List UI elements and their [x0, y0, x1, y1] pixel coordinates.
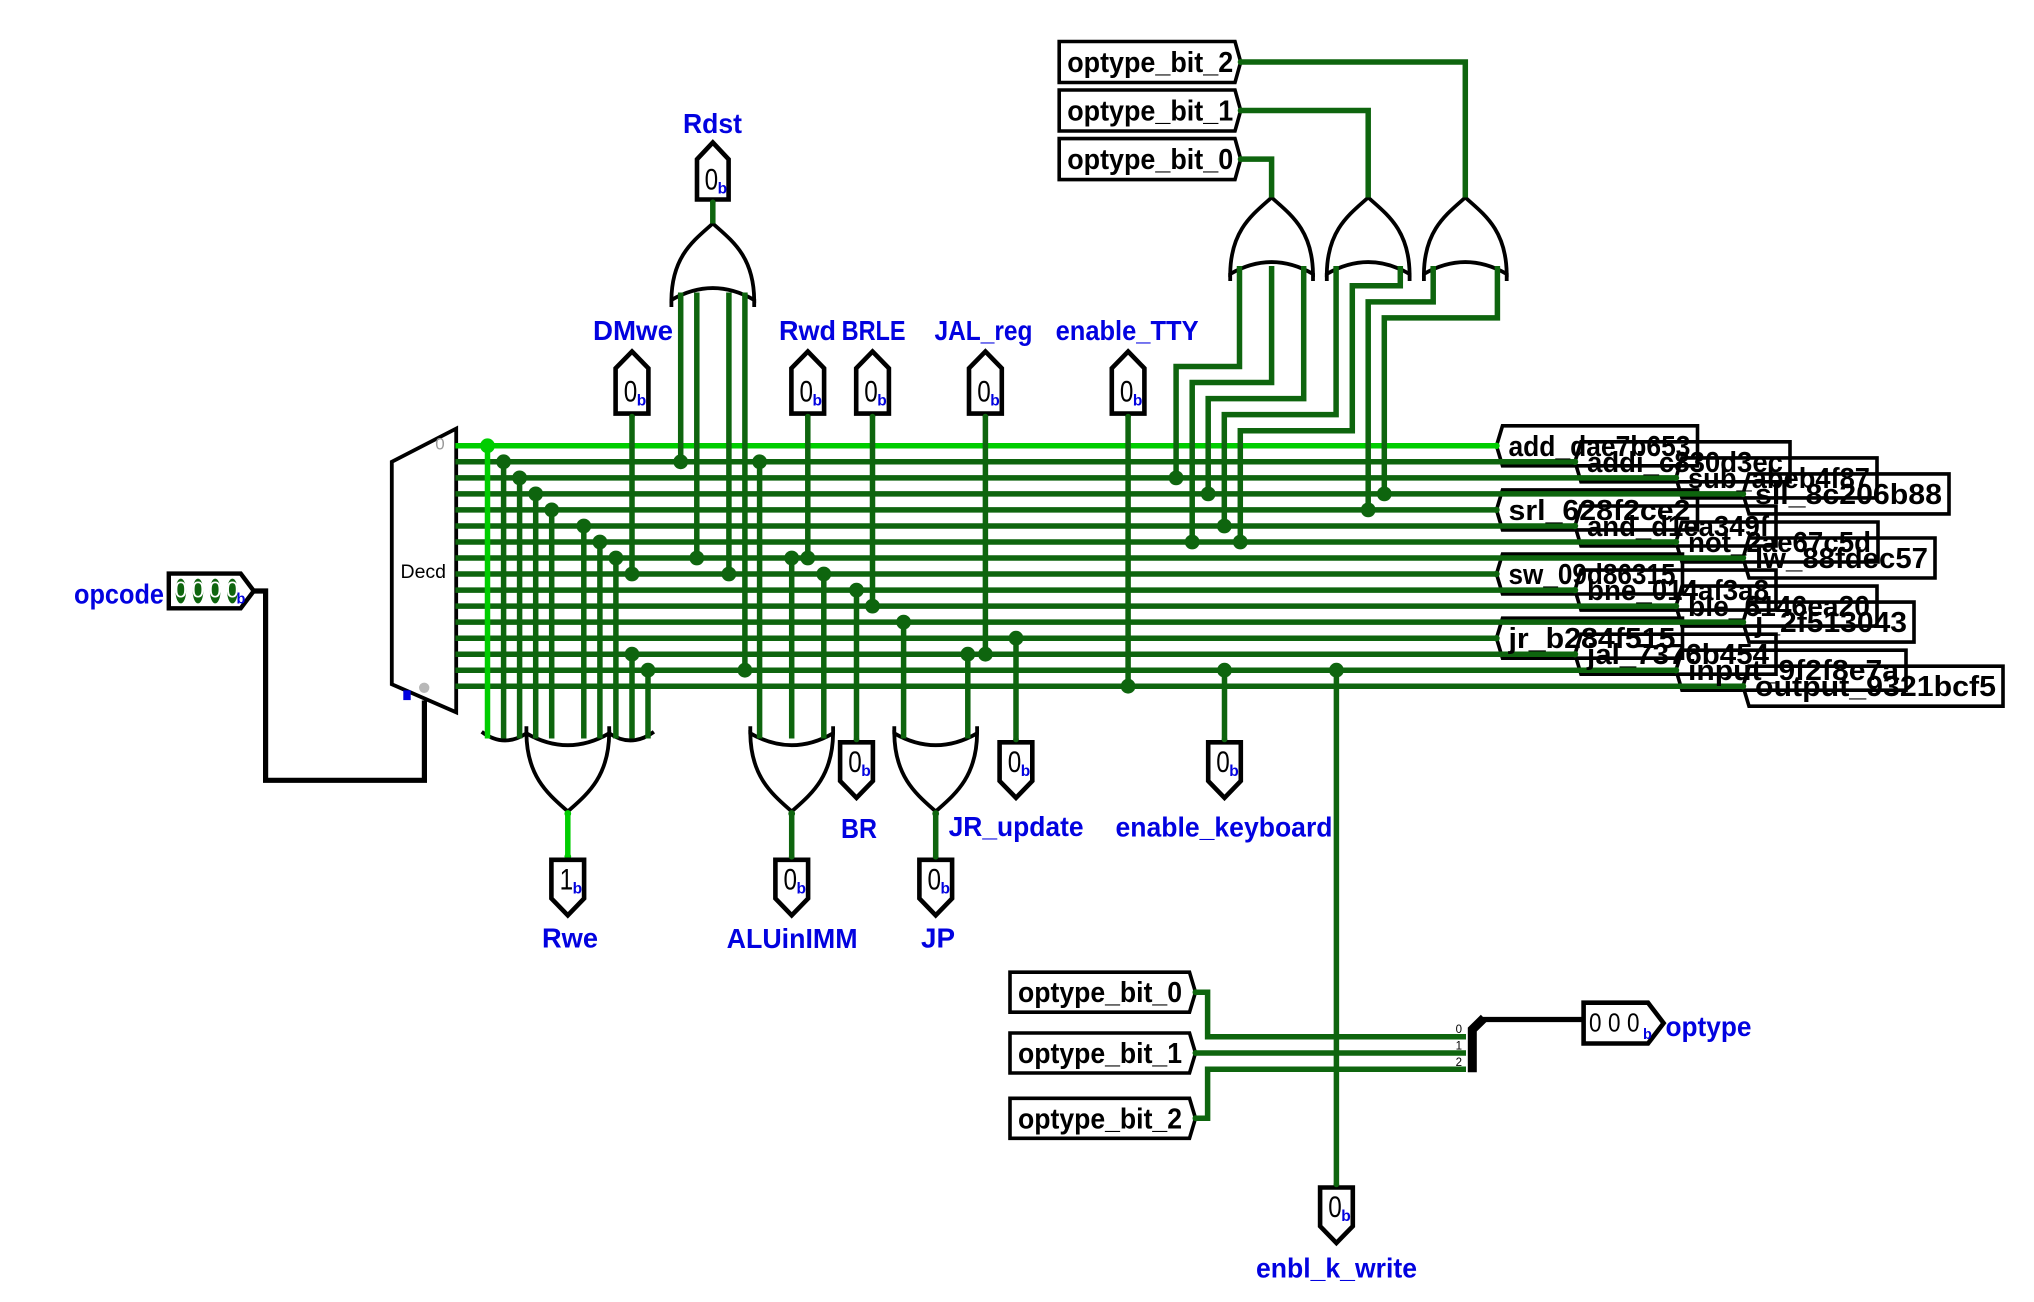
- svg-text:b: b: [877, 393, 886, 410]
- node not_2ae67c5d tip: [1673, 539, 1679, 545]
- wire row0 add (decoder to tunnel): [455, 443, 1496, 449]
- svg-text:b: b: [797, 880, 806, 897]
- svg-text:opcode: opcode: [74, 579, 164, 610]
- wire row8 tap to ALUinIMM input (x=824): [821, 574, 827, 739]
- svg-text:BRLE: BRLE: [842, 315, 906, 346]
- junction row1/Rdst: [673, 454, 688, 469]
- junction row14/enable_keyboard: [1217, 663, 1232, 678]
- wire row14 tap to Rdst input (x=745): [742, 293, 748, 671]
- svg-text:0: 0: [784, 863, 798, 896]
- tunnel sub_abeb4f87 (row 2): [1676, 458, 1877, 498]
- node pin port (bottom probe): [1013, 737, 1019, 743]
- tunnel optype_bit_2 (bottom): [1010, 1098, 1196, 1138]
- svg-text:JAL_reg: JAL_reg: [935, 315, 1033, 346]
- or-gate U-bit1 (optype_bit_1): [1327, 198, 1410, 275]
- wire row6 tap to Rwe input (x=600): [597, 542, 603, 739]
- output pin Rdst (0b): [697, 143, 729, 200]
- tunnel optype_bit_0 (bottom): [1010, 972, 1196, 1012]
- wire row9 bne (decoder to tunnel): [455, 587, 1575, 593]
- svg-text:output_9321bcf5: output_9321bcf5: [1755, 671, 1996, 703]
- node sw_09d86315 tip: [1493, 571, 1499, 577]
- junction row13/JAL_reg: [978, 647, 993, 662]
- junction row5/bit1A: [1217, 519, 1232, 534]
- wire DMwe pin to row8: [629, 414, 635, 574]
- wire Rwe gate output to pin: [565, 812, 571, 860]
- svg-text:Rdst: Rdst: [683, 108, 742, 139]
- decoder enable gray dot: [419, 683, 429, 693]
- wire row1 tap to Rwe input (x=504): [501, 462, 507, 739]
- svg-text:BR: BR: [841, 813, 877, 844]
- junction row3/bit2B: [1377, 487, 1392, 502]
- junction row1/Rwe: [496, 454, 511, 469]
- node JP gate output port: [932, 810, 939, 817]
- svg-text:2: 2: [1456, 1057, 1462, 1069]
- or-gate JP: [894, 733, 977, 811]
- wire Rdst pin to gate: [710, 200, 716, 224]
- svg-text:optype_bit_2: optype_bit_2: [1067, 47, 1233, 79]
- wire row11 tap to JP input (x=904): [901, 622, 907, 738]
- junction row4/Rwe: [544, 503, 559, 518]
- output pin JP (0b): [919, 860, 952, 916]
- svg-text:b: b: [1643, 1027, 1652, 1043]
- wire row14 to enbl_k_write pin: [1334, 670, 1340, 1187]
- tunnel add_dae7b653 (row 0): [1497, 426, 1698, 466]
- svg-text:0: 0: [848, 746, 862, 779]
- tunnel optype_bit_1 (top): [1059, 90, 1241, 131]
- junction row6/bit1B: [1233, 535, 1248, 550]
- tunnel optype_bit_2 (top): [1059, 42, 1241, 83]
- tunnel jal_7376b454 (row 13): [1575, 634, 1776, 674]
- svg-text:ALUinIMM: ALUinIMM: [727, 923, 858, 954]
- junction row6/Rwe: [593, 535, 608, 550]
- svg-text:b: b: [1021, 763, 1030, 780]
- tunnel jr_b284f515 (row 12): [1497, 618, 1683, 658]
- wire row4 tap to Rwe input (x=552): [549, 510, 555, 739]
- wire bit1 gate input B (not row6): [1240, 266, 1400, 542]
- splitter S1 (3-bit combine): [1472, 1018, 1484, 1072]
- svg-text:Rwe: Rwe: [542, 923, 598, 954]
- node sll_8c206b88 tip: [1740, 491, 1746, 497]
- output pin BR (0b): [840, 742, 873, 798]
- wire row1 addi (decoder to tunnel): [455, 459, 1575, 465]
- svg-text:b: b: [1229, 763, 1238, 780]
- svg-text:j_2f513043: j_2f513043: [1754, 607, 1907, 639]
- svg-text:DMwe: DMwe: [593, 315, 673, 346]
- svg-text:Rwd: Rwd: [779, 315, 836, 346]
- tunnel and_d1ea349f (row 5): [1575, 506, 1776, 546]
- junction row8/ALUinIMM: [816, 567, 831, 582]
- svg-text:b: b: [1133, 393, 1142, 410]
- junction row8/Rdst: [722, 567, 737, 582]
- svg-text:0: 0: [1216, 746, 1230, 779]
- tunnel srl_628f2ce2 (row 4): [1497, 490, 1698, 530]
- node ble_6146ea20 tip: [1673, 603, 1679, 609]
- junction row3/Rwe: [528, 487, 543, 502]
- junction row9/BR: [849, 583, 864, 598]
- junction row4/bit2A: [1361, 503, 1376, 518]
- wire row7 tap to Rdst input (x=697): [694, 293, 700, 559]
- tunnel j_2f513043 (row 11): [1743, 602, 1914, 642]
- wire row3 sll (decoder to tunnel): [455, 491, 1743, 497]
- svg-text:optype_bit_0: optype_bit_0: [1018, 977, 1182, 1009]
- output pin optype (000b): [1584, 1003, 1664, 1044]
- output pin JAL_reg (0b): [969, 352, 1002, 414]
- svg-text:enable_keyboard: enable_keyboard: [1116, 812, 1333, 843]
- output pin Rwd (0b): [791, 352, 824, 414]
- junction row14/Rdst: [738, 663, 753, 678]
- wire enable_TTY pin to row15: [1125, 414, 1131, 687]
- junction row11/JP: [896, 615, 911, 630]
- svg-text:sll_8c206b88: sll_8c206b88: [1755, 479, 1942, 511]
- wire optype bus (splitter to pin): [1483, 1017, 1584, 1022]
- tunnel output_9321bcf5 (row 15): [1743, 666, 2003, 706]
- output pin ALUinIMM (0b): [775, 860, 808, 916]
- svg-text:1: 1: [1456, 1041, 1462, 1053]
- junction row13/Rwe: [625, 647, 640, 662]
- tunnel addi_c830d3ec (row 1): [1575, 442, 1790, 482]
- node Rwe gate output port: [564, 810, 571, 817]
- svg-text:enable_TTY: enable_TTY: [1056, 315, 1199, 346]
- node pin port (bottom probe): [854, 737, 860, 743]
- svg-text:b: b: [813, 393, 822, 410]
- node pin port (top probe): [629, 414, 635, 420]
- node pin port (top probe): [983, 414, 989, 420]
- wire optype_bit_0 to splitter pin0: [1196, 992, 1467, 1036]
- svg-text:0: 0: [1328, 1191, 1342, 1224]
- wire row3 tap to Rwe input (x=536): [533, 494, 539, 739]
- node jr_b284f515 tip: [1493, 635, 1499, 641]
- wire row13 tap to JP input (x=968): [965, 654, 971, 738]
- wire row10 ble (decoder to tunnel): [455, 603, 1676, 609]
- junction row7/ALUinIMM: [784, 551, 799, 566]
- svg-text:0: 0: [624, 376, 638, 409]
- node Rwe pin port: [564, 853, 571, 860]
- node input_9f2f8e7a tip: [1673, 667, 1679, 673]
- svg-text:b: b: [941, 880, 950, 897]
- junction row6/bit0B: [1185, 535, 1200, 550]
- wire row13 jal (decoder to tunnel): [455, 651, 1575, 657]
- svg-text:Decd: Decd: [401, 561, 447, 583]
- junction row7/Rwd: [800, 551, 815, 566]
- svg-text:lw_88fdec57: lw_88fdec57: [1755, 543, 1928, 575]
- svg-text:optype_bit_2: optype_bit_2: [1018, 1103, 1182, 1135]
- node output_9321bcf5 tip: [1740, 683, 1746, 689]
- junction row7/Rdst: [689, 551, 704, 566]
- svg-text:0: 0: [435, 435, 444, 454]
- wire row6 not (decoder to tunnel): [455, 539, 1676, 545]
- node sub_abeb4f87 tip: [1673, 475, 1679, 481]
- wire row5 and (decoder to tunnel): [455, 523, 1575, 529]
- wire bit0 gate input B (not row6): [1192, 266, 1271, 542]
- or-gate ALUinIMM: [750, 733, 833, 811]
- svg-text:0: 0: [977, 376, 991, 409]
- wire optype_bit_2 tunnel to bit2 gate output: [1241, 62, 1466, 198]
- output pin Rwe (1b): [551, 860, 584, 916]
- wire Rwd pin to row7: [805, 414, 811, 558]
- node bit2 tip (bottom): [1193, 1115, 1199, 1121]
- svg-text:0: 0: [1608, 1008, 1621, 1038]
- wire row14 input (decoder to tunnel): [455, 667, 1676, 673]
- wire BRLE pin to row10: [870, 414, 876, 606]
- svg-text:b: b: [990, 393, 999, 410]
- or-gate U-bit0 (optype_bit_0): [1230, 198, 1313, 275]
- svg-text:optype_bit_1: optype_bit_1: [1067, 96, 1233, 128]
- svg-text:0: 0: [864, 376, 878, 409]
- output pin enable_keyboard (0b): [1208, 742, 1241, 798]
- node bit0 tip (bottom): [1193, 989, 1199, 995]
- svg-text:0: 0: [1627, 1008, 1640, 1038]
- junction row12/JR_update: [1009, 631, 1024, 646]
- node optype_bit_2 tip: [1238, 59, 1244, 65]
- svg-text:b: b: [637, 393, 646, 410]
- node pin port (top probe): [870, 414, 876, 420]
- node ALUinIMM pin port: [789, 854, 795, 860]
- junction row14/Rwe: [641, 663, 656, 678]
- output pin enbl_k_write (0b): [1320, 1188, 1353, 1244]
- junction row7/Rwe: [609, 551, 624, 566]
- wire optype_bit_1 to splitter pin1: [1196, 1050, 1467, 1056]
- svg-text:0: 0: [1008, 746, 1022, 779]
- output pin JR_update (0b): [1000, 742, 1033, 798]
- svg-text:0: 0: [1120, 376, 1134, 409]
- node and_d1ea349f tip: [1572, 523, 1578, 529]
- svg-text:1: 1: [560, 863, 574, 896]
- decoder select port marker: [403, 690, 410, 700]
- svg-text:optype: optype: [1666, 1011, 1752, 1042]
- input pin opcode (0000b): [169, 574, 254, 609]
- svg-text:b: b: [237, 592, 246, 608]
- node lw_88fdec57 tip: [1740, 555, 1746, 561]
- wire row1 tap to Rdst input (x=681): [678, 293, 684, 462]
- junction row1/ALUinIMM: [752, 454, 767, 469]
- svg-text:b: b: [861, 763, 870, 780]
- junction row10/BRLE: [865, 599, 880, 614]
- svg-text:0: 0: [705, 164, 719, 197]
- junction row2/bit0A: [1169, 471, 1184, 486]
- svg-text:0: 0: [192, 577, 205, 603]
- wire bit0 gate input C (sll row3): [1208, 266, 1304, 494]
- junction row14/enbl_k_write: [1329, 663, 1344, 678]
- svg-text:0: 0: [1589, 1008, 1602, 1038]
- node j_2f513043 tip: [1740, 619, 1746, 625]
- wire row13 tap to Rwe input (x=632): [629, 654, 635, 738]
- wire row9 to BR pin: [854, 590, 860, 742]
- node add_dae7b653 tip: [1493, 443, 1499, 449]
- node bit1 tip (bottom): [1193, 1050, 1199, 1056]
- svg-text:JR_update: JR_update: [949, 811, 1084, 842]
- tunnel bne_014af3a8 (row 9): [1575, 570, 1776, 610]
- svg-text:0: 0: [1456, 1024, 1462, 1036]
- wire row2 tap to Rwe input (x=520): [517, 478, 523, 739]
- junction row0/Rwe: [480, 438, 495, 453]
- wire ALUinIMM gate output to pin: [789, 812, 795, 860]
- node pin port (top probe): [805, 414, 811, 420]
- node bne_014af3a8 tip: [1572, 587, 1578, 593]
- node Rdst pin port: [710, 199, 716, 205]
- node optype_bit_1 tip: [1238, 108, 1244, 114]
- wire JP gate output to pin: [933, 812, 939, 860]
- tunnel input_9f2f8e7a (row 14): [1676, 650, 1906, 690]
- node ALUinIMM gate output port: [788, 810, 795, 817]
- junction row13/JP: [960, 647, 975, 662]
- svg-text:0: 0: [928, 863, 942, 896]
- wire row5 tap to Rwe input (x=584): [581, 526, 587, 739]
- wire row1 tap to ALUinIMM input (x=760): [757, 462, 763, 739]
- wire row8 sw (decoder to tunnel): [455, 571, 1496, 577]
- output pin DMwe (0b): [616, 352, 649, 414]
- wire optype_bit_2 to splitter pin2: [1196, 1069, 1467, 1118]
- tunnel optype_bit_0 (top): [1059, 139, 1241, 180]
- wire optype_bit_0 tunnel to bit0 gate output: [1241, 159, 1272, 197]
- tunnel optype_bit_1 (bottom): [1010, 1033, 1196, 1073]
- wire row4 srl (decoder to tunnel): [455, 507, 1496, 513]
- wire row14 to enable_keyboard pin: [1222, 670, 1228, 742]
- tunnel sll_8c206b88 (row 3): [1743, 474, 1949, 514]
- junction row2/Rwe: [512, 471, 527, 486]
- wire bit2 gate input B (sll row3): [1384, 266, 1497, 494]
- wire row15 output (decoder to tunnel): [455, 683, 1743, 689]
- wire row7 lw (decoder to tunnel): [455, 555, 1743, 561]
- node srl_628f2ce2 tip: [1493, 507, 1499, 513]
- output pin enable_TTY (0b): [1112, 352, 1145, 414]
- decoder Decd body: [392, 429, 456, 713]
- svg-text:b: b: [718, 181, 727, 198]
- wire row14 tap to Rwe input (x=648): [645, 670, 651, 738]
- node enbl_k_write pin port: [1334, 1182, 1340, 1188]
- wire bit2 gate input A (srl row4): [1368, 266, 1433, 510]
- tunnel sw_09d86315 (row 8): [1497, 554, 1683, 594]
- wire row8 tap to Rdst input (x=729): [726, 293, 732, 575]
- wire bit0 gate input A (sub row2): [1176, 266, 1239, 478]
- output pin BRLE (0b): [856, 352, 889, 414]
- svg-text:optype_bit_0: optype_bit_0: [1067, 144, 1233, 176]
- node jal_7376b454 tip: [1572, 651, 1578, 657]
- wire row12 jr (decoder to tunnel): [455, 635, 1496, 641]
- junction row3/bit0C: [1201, 487, 1216, 502]
- or-gate U-bit2 (optype_bit_2): [1424, 198, 1507, 275]
- wire row7 tap to ALUinIMM input (x=792): [789, 558, 795, 739]
- junction row5/Rwe: [576, 519, 591, 534]
- svg-text:b: b: [573, 880, 582, 897]
- node pin port (bottom probe): [1222, 737, 1228, 743]
- junction row15/enable_TTY: [1121, 679, 1136, 694]
- node JP pin port: [933, 854, 939, 860]
- svg-text:enbl_k_write: enbl_k_write: [1256, 1253, 1417, 1284]
- node pin port (top probe): [1125, 414, 1131, 420]
- or-gate Rwe (10 inputs): [526, 733, 609, 811]
- wire row2 sub (decoder to tunnel): [455, 475, 1676, 481]
- wire JAL_reg pin to row13: [983, 414, 989, 655]
- wire opcode bus (pin to decoder select): [254, 591, 425, 780]
- wire row0 tap to Rwe input (x=488): [485, 446, 491, 739]
- wire bit1 gate input A (and row5): [1224, 266, 1336, 526]
- tunnel lw_88fdec57 (row 7): [1743, 538, 1935, 578]
- svg-text:0: 0: [800, 376, 814, 409]
- svg-text:0: 0: [209, 577, 222, 603]
- wire optype_bit_1 tunnel to bit1 gate output: [1241, 111, 1369, 198]
- wire row11 j (decoder to tunnel): [455, 619, 1743, 625]
- tunnel ble_6146ea20 (row 10): [1676, 586, 1877, 626]
- tunnel not_2ae67c5d (row 6): [1676, 522, 1878, 562]
- or-gate Rdst: [671, 224, 754, 301]
- svg-text:b: b: [1341, 1208, 1350, 1225]
- node optype_bit_0 tip: [1238, 156, 1244, 162]
- junction row8/DMwe: [625, 567, 640, 582]
- svg-text:JP: JP: [921, 923, 955, 954]
- svg-text:optype_bit_1: optype_bit_1: [1018, 1038, 1182, 1070]
- wire row12 to JR_update pin: [1013, 638, 1019, 742]
- opcode pin value 0000: [176, 579, 187, 604]
- svg-text:0: 0: [174, 577, 187, 603]
- wire row7 tap to Rwe input (x=616): [613, 558, 619, 739]
- node addi_c830d3ec tip: [1572, 459, 1578, 465]
